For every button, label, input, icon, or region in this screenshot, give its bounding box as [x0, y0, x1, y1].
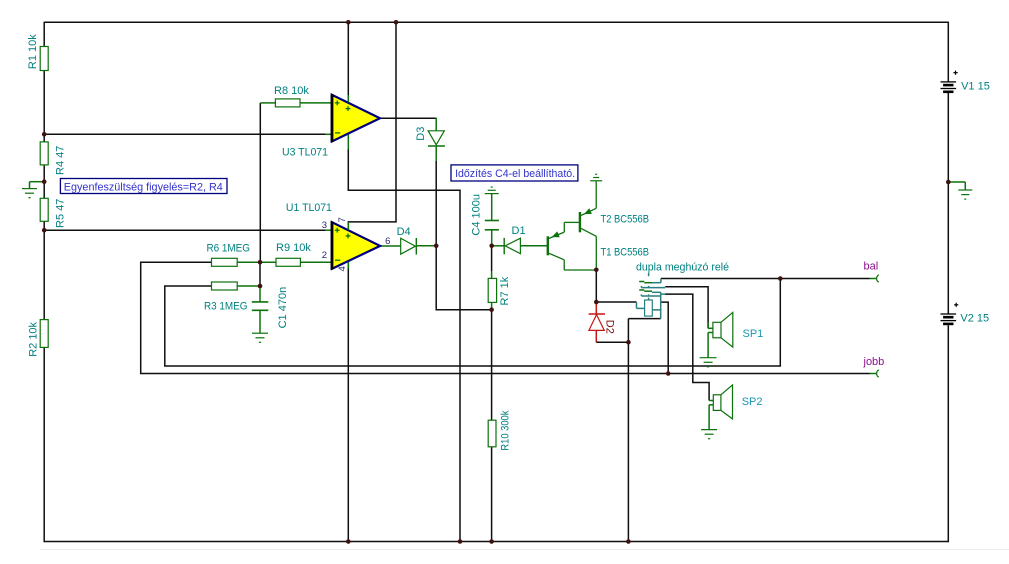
wire top supply rail [44, 21, 948, 23]
resistor R2 [28, 320, 49, 357]
wire V1 to ground node [947, 92, 949, 182]
ground left R4 R5 [22, 182, 44, 198]
resistor R6 [207, 243, 251, 267]
wire R9 to U1 minus [300, 261, 331, 263]
wire U3 pin7 supply [347, 22, 349, 98]
wire left column top [43, 22, 45, 47]
wire R7 node to R10 [491, 310, 493, 421]
pin 6 label U1 [385, 236, 390, 247]
ground below SP2 [701, 430, 717, 439]
wire R8 to U3 plus [300, 102, 332, 104]
wire node down to R7 [491, 246, 493, 279]
wire U1 pin4 to rail [347, 261, 349, 541]
wire D3 to D4 output node [435, 146, 437, 246]
diode D1 [504, 225, 525, 254]
wire R7 to lower node [491, 302, 493, 309]
junction right ground [946, 180, 951, 185]
wire D1 to T1 base [520, 245, 547, 247]
junction bal loop [778, 276, 783, 281]
transistor T2 [580, 181, 649, 270]
resistor R9 [276, 242, 311, 266]
svg-text:SP1: SP1 [743, 328, 764, 340]
svg-text:T1 BC556B: T1 BC556B [601, 247, 650, 259]
wire R4 to R5 node [43, 165, 45, 198]
ground below SP1 [700, 358, 717, 367]
svg-text:R3 1MEG: R3 1MEG [204, 301, 248, 313]
ground below C1 [252, 333, 268, 342]
resistor R3 [204, 282, 248, 313]
wire D2 node to bottom rail [627, 342, 629, 541]
resistor R7 [488, 276, 511, 305]
svg-text:R1 10k: R1 10k [27, 34, 39, 69]
wire D2 bottom lead [595, 330, 597, 342]
svg-text:Időzítés C4-el beállítható.: Időzítés C4-el beállítható. [455, 168, 575, 180]
note box voltage monitoring [60, 179, 227, 194]
wire node to D1 [492, 245, 506, 247]
wire ground node to V2 [947, 182, 949, 314]
relay contact S3 [639, 290, 665, 294]
ground right rail [948, 182, 972, 199]
wire V2 to bottom rail [947, 325, 949, 542]
wire T collectors node [595, 270, 597, 302]
junction rail U3 pin4 [458, 539, 463, 544]
svg-text:R5 47: R5 47 [55, 199, 67, 228]
wire R8 branch vertical [259, 103, 261, 262]
svg-text:C4 100u: C4 100u [471, 194, 483, 236]
relay coil [637, 294, 661, 319]
wire R10 to bottom rail [491, 447, 493, 542]
junction top rail U1 [394, 20, 399, 25]
svg-text:R2 10k: R2 10k [28, 321, 40, 356]
svg-text:D4: D4 [397, 226, 411, 238]
wire bottom rail [44, 541, 949, 543]
resistor R8 [274, 85, 309, 107]
svg-text:R6 1MEG: R6 1MEG [207, 243, 251, 255]
diode D2 [589, 314, 616, 334]
junction relay coil node [594, 300, 599, 305]
junction C4 D1 [489, 244, 494, 249]
resistor R4 [40, 142, 66, 175]
resistor R1 [27, 34, 48, 71]
wire C4 to D1 node [491, 230, 493, 246]
wire U1 pin7 supply [348, 22, 396, 230]
svg-text:T2 BC556B: T2 BC556B [601, 214, 650, 226]
wire U3 inverting input [44, 133, 332, 135]
note box timing [451, 165, 578, 181]
junction rail U1 pin4 [346, 539, 351, 544]
transistor T1 [548, 222, 649, 270]
svg-text:dupla meghúzó relé: dupla meghúzó relé [636, 261, 729, 273]
svg-text:D3: D3 [415, 127, 427, 141]
svg-text:V2 15: V2 15 [960, 312, 989, 324]
junction node A [258, 260, 263, 265]
wire relay bottom link [628, 318, 660, 320]
relay contact S2 [641, 286, 665, 288]
svg-text:U1 TL071: U1 TL071 [286, 202, 332, 214]
junction node B [258, 284, 263, 289]
svg-text:2: 2 [322, 250, 327, 261]
op-amp U3 [282, 94, 380, 158]
ground above T2 [590, 174, 602, 181]
pin 3 label U1 [322, 220, 327, 231]
wire relay common down [627, 319, 629, 343]
wire R1 to R4 node [43, 71, 45, 142]
relay linkage dashes [648, 273, 650, 300]
junction rail D2 [626, 539, 631, 544]
junction R7 bottom [489, 307, 494, 312]
resistor R5 [40, 198, 66, 228]
junction top rail U3 [346, 20, 351, 25]
wire R8 left lead [260, 102, 275, 104]
wire D2 node link [596, 341, 628, 343]
relay contact S4 [641, 294, 660, 296]
wire relay S3 to SP2 [665, 294, 709, 400]
wire C4 top lead [491, 194, 493, 221]
svg-text:SP2: SP2 [742, 396, 763, 408]
relay contact S1 [639, 279, 661, 283]
svg-text:4: 4 [337, 266, 348, 271]
terminal bal [864, 261, 879, 283]
wire relay coil feed [596, 301, 636, 303]
wire U3 pin4 to column [348, 149, 460, 542]
battery V1 [941, 71, 990, 93]
wire relay to jobb node [661, 302, 669, 373]
svg-text:R4 47: R4 47 [55, 146, 67, 175]
svg-text:6: 6 [385, 236, 390, 247]
terminal jobb [863, 356, 885, 377]
junction R1 R4 [42, 132, 47, 137]
wire R2 to bottom rail [43, 347, 45, 542]
wire U3 output to D3 [380, 118, 436, 131]
junction jobb relay [666, 371, 671, 376]
wire right rail top [947, 22, 949, 82]
pin 2 label U1 [322, 250, 327, 261]
resistor R10 [488, 410, 511, 450]
wire relay S2 to SP1 [665, 287, 708, 329]
svg-text:R7 1k: R7 1k [499, 276, 511, 305]
svg-text:D2: D2 [604, 320, 616, 334]
svg-text:R8 10k: R8 10k [274, 85, 309, 97]
svg-text:D1: D1 [512, 225, 526, 237]
svg-text:jobb: jobb [863, 356, 885, 368]
svg-text:C1 470n: C1 470n [277, 287, 289, 329]
svg-text:V1 15: V1 15 [961, 80, 990, 92]
speaker SP1 [708, 312, 763, 357]
wire R6 left loop to jobb [141, 262, 870, 373]
svg-text:Egyenfeszültség figyelés=R2, R: Egyenfeszültség figyelés=R2, R4 [64, 181, 223, 193]
speaker SP2 [709, 385, 762, 430]
wire D4 to node [416, 245, 436, 247]
svg-text:U3 TL071: U3 TL071 [282, 146, 328, 158]
pin 7 label U1 [337, 217, 348, 222]
faint page edge line [40, 549, 1009, 551]
pin 4 label U1 [337, 266, 348, 271]
diode D4 [397, 226, 417, 255]
junction R4 ground [42, 179, 47, 184]
battery V2 [941, 303, 990, 325]
wire R3 left loop to bal [165, 279, 781, 367]
svg-text:7: 7 [337, 217, 348, 222]
wire D2 top lead [595, 302, 597, 314]
junction T1 T2 collectors [594, 268, 599, 273]
wire R5 to R2 [43, 221, 45, 319]
svg-text:R10 300k: R10 300k [500, 410, 512, 450]
wire U1 noninverting input [44, 229, 332, 231]
wire R3 to node B [237, 285, 260, 287]
junction D2 bottom [626, 340, 631, 345]
svg-text:3: 3 [322, 220, 327, 231]
wire node A to R6 R9 [237, 261, 276, 263]
wire bal terminal lead [870, 278, 877, 280]
ground above C4 [485, 187, 499, 194]
svg-text:R9 10k: R9 10k [276, 242, 311, 254]
op-amp U1 [286, 202, 380, 269]
relay label [636, 261, 729, 273]
wire U1 output lead [380, 245, 401, 247]
junction rail R10 [489, 539, 494, 544]
diode D3 [415, 127, 445, 146]
wire bal line [661, 278, 870, 280]
junction D4 output [434, 244, 439, 249]
junction R5 input [42, 228, 47, 233]
wire node A to node B [259, 262, 261, 286]
capacitor C4 [471, 194, 499, 236]
wire jobb terminal lead [870, 373, 877, 375]
capacitor C1 [252, 286, 289, 333]
svg-text:bal: bal [864, 261, 879, 273]
wire D4 node to R7 bottom [436, 246, 491, 310]
